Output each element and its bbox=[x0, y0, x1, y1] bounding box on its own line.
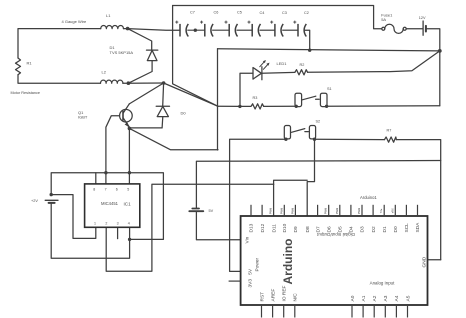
wire battery -2V bottom to IC pin4 bbox=[51, 203, 129, 258]
svg-text:5V: 5V bbox=[209, 209, 214, 213]
diode D0 bbox=[156, 106, 169, 116]
svg-text:5V: 5V bbox=[248, 268, 254, 275]
svg-text:4: 4 bbox=[128, 222, 130, 226]
wire fuse to battery 12V bbox=[406, 28, 422, 30]
S1 post dots bbox=[295, 105, 298, 108]
node C dot bbox=[162, 81, 166, 85]
inductor L2 bbox=[101, 80, 123, 83]
capacitor C6 bbox=[200, 21, 213, 37]
wire S2 right post down to D8 bbox=[307, 139, 314, 216]
svg-text:SCL: SCL bbox=[404, 223, 410, 233]
wire node A to D1 top bbox=[128, 29, 152, 50]
transistor Q1 bbox=[120, 104, 133, 128]
wire battery to node E vertical right bbox=[427, 29, 440, 106]
wire battery +2V right branch to IC pin1 bbox=[51, 195, 96, 239]
wire step to D8 vertical bbox=[274, 180, 308, 184]
svg-text:D10: D10 bbox=[282, 223, 288, 232]
svg-text:D7: D7 bbox=[315, 226, 321, 232]
svg-text:+2V: +2V bbox=[31, 199, 38, 203]
svg-text:L2: L2 bbox=[102, 70, 107, 75]
svg-text:5: 5 bbox=[127, 188, 129, 192]
battery 5V bbox=[189, 209, 203, 212]
IC MIC4451 IC1 bbox=[85, 184, 140, 227]
wire R3 to S1 bbox=[264, 105, 295, 107]
resistor R1 bbox=[16, 58, 21, 75]
svg-text:PWM: PWM bbox=[279, 207, 283, 214]
wire L2 to node B bbox=[123, 82, 128, 84]
svg-text:AREF: AREF bbox=[270, 289, 276, 302]
wire GND pin stub bbox=[428, 259, 441, 261]
wire R1 bottom to L2 bbox=[18, 75, 101, 83]
svg-text:S1: S1 bbox=[327, 87, 332, 91]
svg-text:R2: R2 bbox=[300, 63, 305, 67]
capacitor C4 bbox=[248, 21, 261, 37]
wire node C to D0 bbox=[162, 83, 165, 106]
svg-text:PWM: PWM bbox=[290, 207, 294, 214]
Arduino top pins D13..SDA bbox=[251, 205, 418, 216]
svg-text:D8: D8 bbox=[305, 226, 311, 232]
wire S2 right to R7 bbox=[315, 138, 385, 140]
Arduino1 board outline bbox=[241, 216, 428, 305]
svg-text:A0: A0 bbox=[350, 295, 356, 301]
svg-text:2: 2 bbox=[105, 222, 107, 226]
svg-text:N/C: N/C bbox=[293, 293, 299, 302]
svg-text:IO REF: IO REF bbox=[282, 285, 288, 301]
wire 5V battery bottom to Vin pin bbox=[196, 211, 240, 240]
wire node B to node C bbox=[128, 82, 163, 84]
Q1 emitter node dot bbox=[128, 127, 132, 131]
svg-text:6: 6 bbox=[116, 188, 118, 192]
Arduino left pin 3V3 stub bbox=[229, 280, 241, 282]
wire node C to Q1 collector bbox=[129, 83, 163, 104]
wire node D to R3 node bbox=[218, 105, 240, 107]
capacitor C7 bbox=[175, 21, 188, 37]
svg-text:D5: D5 bbox=[338, 226, 344, 232]
capacitor C2 bbox=[293, 21, 306, 37]
svg-text:IC1: IC1 bbox=[124, 201, 132, 206]
svg-text:◂RX: ◂RX bbox=[390, 208, 394, 213]
svg-text:GND: GND bbox=[421, 256, 427, 267]
resistor R3 bbox=[240, 104, 264, 109]
svg-text:MIC4451: MIC4451 bbox=[101, 201, 119, 206]
wire top box to fuse bbox=[173, 6, 382, 29]
svg-text:D6: D6 bbox=[326, 226, 332, 232]
svg-text:R1: R1 bbox=[27, 61, 33, 66]
svg-text:D0: D0 bbox=[393, 226, 399, 232]
svg-text:Vin: Vin bbox=[245, 236, 251, 243]
wire node C diagonal to node D bbox=[164, 83, 218, 106]
svg-text:R7: R7 bbox=[387, 128, 392, 132]
svg-text:12V: 12V bbox=[419, 16, 426, 20]
wire C2 down to bottom row bbox=[305, 30, 310, 50]
wire top 4-gauge from R1 to L1 bbox=[18, 29, 101, 58]
wire S1 to node E bbox=[327, 105, 440, 108]
wire Q1 base down to IC pin7 bbox=[106, 116, 120, 184]
IC pin8 stub bbox=[95, 173, 97, 184]
IC pin4 node dot bbox=[128, 238, 131, 241]
Arduino bottom pin labels bbox=[259, 285, 411, 301]
svg-text:Arduino1: Arduino1 bbox=[360, 195, 377, 200]
LED arrows bbox=[260, 60, 270, 69]
small labels bbox=[11, 10, 427, 213]
IC rail dots bbox=[104, 171, 107, 174]
wire LED cathode to R2 bbox=[262, 71, 295, 74]
svg-text:Analog Input: Analog Input bbox=[370, 281, 395, 286]
svg-text:7: 7 bbox=[105, 188, 107, 192]
svg-text:PWM: PWM bbox=[335, 207, 339, 214]
svg-text:C4: C4 bbox=[260, 11, 265, 15]
svg-text:3: 3 bbox=[117, 222, 119, 226]
svg-text:4 Gauge Wire: 4 Gauge Wire bbox=[62, 19, 87, 24]
Arduino top pin labels bbox=[249, 222, 422, 233]
battery +2V top wire to IC rail bbox=[51, 173, 163, 240]
caps bottom dot bbox=[308, 49, 311, 52]
svg-text:A1: A1 bbox=[361, 295, 367, 301]
wire node D vertical bbox=[217, 49, 219, 150]
svg-text:D1: D1 bbox=[382, 226, 388, 232]
svg-text:3V3: 3V3 bbox=[248, 279, 254, 288]
svg-text:D2: D2 bbox=[371, 226, 377, 232]
svg-text:S2: S2 bbox=[316, 120, 321, 124]
svg-text:R3: R3 bbox=[253, 96, 258, 100]
wire R2 row to node E diagonal bbox=[308, 51, 440, 72]
svg-text:D13: D13 bbox=[249, 223, 255, 232]
wire emitter node diagonal to node D vertical bbox=[129, 128, 218, 149]
wire caps box left vertical + kink to node D bbox=[173, 6, 218, 107]
wire D1 bottom to node B bbox=[128, 61, 152, 84]
battery +2V top dot bbox=[50, 193, 53, 196]
svg-text:C2: C2 bbox=[304, 11, 309, 15]
switch S1 bbox=[295, 93, 327, 106]
svg-text:C7: C7 bbox=[190, 10, 195, 14]
svg-text:D11: D11 bbox=[271, 224, 277, 233]
svg-text:8: 8 bbox=[93, 188, 95, 192]
svg-text:SDA: SDA bbox=[415, 222, 421, 233]
svg-text:IGBT: IGBT bbox=[78, 115, 88, 120]
wire Q1 emitter node down to IC pin5 bbox=[128, 128, 130, 184]
svg-text:D12: D12 bbox=[260, 223, 266, 232]
svg-text:C5: C5 bbox=[237, 10, 242, 14]
LED LED1 bbox=[253, 67, 262, 80]
wire L1 to node A bbox=[124, 28, 128, 30]
wire R7 to GND vertical bbox=[396, 140, 440, 260]
resistor R2 bbox=[295, 70, 308, 75]
capacitor C5 bbox=[225, 21, 238, 37]
svg-text:Arduino: Arduino bbox=[281, 239, 295, 285]
wire D11 pin up bbox=[273, 184, 275, 216]
node A dot bbox=[126, 27, 130, 31]
wire caps bottom row bbox=[218, 49, 440, 51]
svg-text:C6: C6 bbox=[214, 10, 219, 14]
svg-text:D4: D4 bbox=[349, 226, 355, 232]
svg-text:C3: C3 bbox=[282, 11, 287, 15]
Arduino side labels bbox=[245, 236, 428, 287]
svg-text:Power: Power bbox=[254, 258, 260, 272]
svg-text:PWM: PWM bbox=[357, 207, 361, 214]
PWM marks bbox=[269, 207, 395, 214]
wire 5V battery top to GND vertical bbox=[196, 161, 440, 209]
capacitor C3 bbox=[270, 21, 283, 37]
S2 post dots bbox=[284, 138, 287, 141]
node B area (L2 junction) bbox=[127, 81, 131, 85]
svg-text:PWM: PWM bbox=[324, 207, 328, 214]
svg-text:Motor Resistance: Motor Resistance bbox=[11, 91, 41, 95]
battery +2V bbox=[45, 200, 58, 203]
resistor R7 bbox=[385, 137, 397, 142]
svg-text:D9: D9 bbox=[293, 226, 299, 232]
svg-text:L1: L1 bbox=[106, 13, 111, 18]
IC pin3 stub bbox=[117, 227, 119, 238]
wire S2 left to Arduino 5V pin bbox=[230, 139, 286, 271]
svg-text:Digital Input/Output: Digital Input/Output bbox=[316, 232, 354, 237]
svg-text:1: 1 bbox=[94, 222, 96, 226]
wire D0 anode to emitter node bbox=[129, 117, 162, 128]
svg-text:D0: D0 bbox=[181, 111, 187, 116]
svg-text:5A: 5A bbox=[381, 17, 386, 22]
wire cap links bbox=[187, 29, 298, 31]
wire LED anode left corner down to R3 node bbox=[240, 73, 253, 106]
svg-text:A5: A5 bbox=[405, 295, 411, 301]
svg-text:LED1: LED1 bbox=[277, 61, 288, 66]
svg-text:PWM: PWM bbox=[269, 207, 273, 214]
Arduino bottom pins bbox=[262, 305, 408, 318]
wire node A to caps row bbox=[128, 29, 180, 31]
diode D1 TVS 5KP15A bbox=[147, 50, 158, 61]
caps dot C7-C6 bbox=[194, 29, 197, 32]
svg-text:TVS 5KP15A: TVS 5KP15A bbox=[110, 50, 134, 55]
fuse Fuse1 5A bbox=[382, 24, 406, 33]
svg-text:A2: A2 bbox=[372, 295, 378, 301]
switch S2 bbox=[284, 126, 315, 139]
node E dot bbox=[438, 49, 442, 53]
svg-text:TX▸: TX▸ bbox=[379, 208, 383, 213]
svg-text:A3: A3 bbox=[383, 295, 389, 301]
svg-text:RST: RST bbox=[259, 292, 265, 302]
svg-text:D3: D3 bbox=[360, 226, 366, 232]
svg-text:A4: A4 bbox=[394, 295, 400, 301]
R3 node dot bbox=[238, 105, 241, 108]
capacitors C7 C6 C5 C4 C3 C2 bbox=[175, 21, 306, 37]
wire IC pin2 loop to D11/D8 net bbox=[106, 184, 273, 271]
inductor L1 bbox=[101, 26, 124, 29]
battery 12V bbox=[423, 21, 426, 35]
